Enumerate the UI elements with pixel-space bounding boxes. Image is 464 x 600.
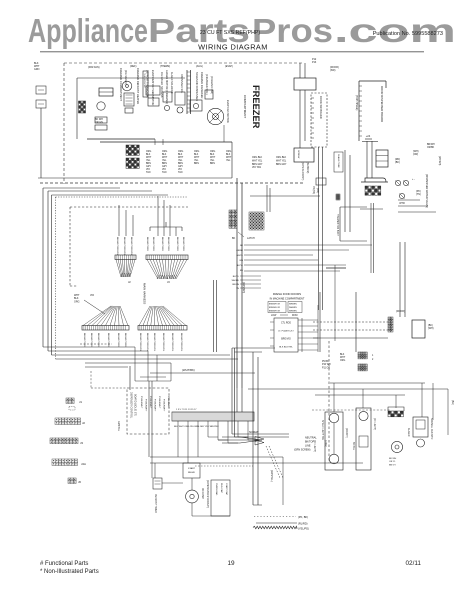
machine tiny labels right [412, 144, 440, 196]
fresh food right ladder [298, 305, 318, 352]
svg-text:BLK: BLK [178, 154, 183, 156]
wire trunk center stubs [250, 185, 320, 212]
svg-text:(FRZ FAN): (FRZ FAN) [88, 66, 100, 69]
svg-text:Appliance: Appliance [28, 12, 148, 49]
svg-text:YEL: YEL [210, 160, 215, 162]
defrost heater [124, 93, 134, 113]
svg-text:ORG: ORG [210, 151, 215, 153]
wire trunk right pair [319, 147, 323, 310]
ice maker tiny labels [95, 118, 103, 124]
svg-text:YEL: YEL [226, 160, 231, 162]
svg-text:VIO: VIO [162, 169, 166, 171]
svg-text:BLKWHTORGYEL: BLKWHTORGYEL [162, 333, 164, 352]
svg-text:BLKWHTORGYEL: BLKWHTORGYEL [139, 333, 141, 352]
svg-text:(GRN/YEL): (GRN/YEL) [270, 470, 272, 482]
svg-text:BLKWHTORGYEL: BLKWHTORGYEL [153, 333, 155, 352]
fan module box [413, 417, 428, 447]
svg-text:DISPENSER CONTROL: DISPENSER CONTROL [130, 392, 133, 419]
svg-text:VIO: VIO [146, 169, 150, 171]
wire dispenser link [300, 90, 305, 148]
svg-text:AUGER MOTOR (FREEZER): AUGER MOTOR (FREEZER) [165, 70, 169, 104]
svg-text:BLK: BLK [210, 154, 215, 156]
svg-text:ORG: ORG [74, 300, 80, 303]
wires compressor links [162, 478, 230, 516]
dispenser top box [294, 78, 316, 90]
svg-text:+24: +24 [366, 134, 371, 138]
svg-text:ORG BLK: ORG BLK [276, 157, 287, 159]
svg-text:J1: J1 [79, 400, 82, 404]
svg-text:BOARD (SOLID ST): BOARD (SOLID ST) [134, 394, 137, 416]
svg-text:+ -: + - [412, 178, 415, 181]
svg-text:J6: J6 [78, 480, 81, 484]
svg-text:BK WH: BK WH [389, 458, 397, 460]
auger module bracket [388, 407, 404, 411]
svg-text:BRN: BRN [146, 163, 151, 165]
svg-text:J2: J2 [82, 421, 85, 425]
svg-text:BLKWHTORG: BLKWHTORG [97, 333, 99, 347]
fill tube heater [95, 117, 107, 130]
trunk top box [316, 178, 326, 185]
FREEZER compartment label [243, 85, 261, 129]
freezer interior extra labels [124, 70, 213, 99]
svg-text:DEFROST THERMOSTAT: DEFROST THERMOSTAT [146, 70, 149, 99]
svg-text:P1 BLKWHT: P1 BLKWHT [149, 396, 151, 409]
svg-text:ORG: ORG [178, 151, 183, 153]
svg-text:WHT: WHT [226, 157, 232, 159]
svg-text:BLKWHTORGYEL: BLKWHTORGYEL [180, 333, 182, 352]
svg-text:(EVAP): (EVAP) [225, 65, 233, 68]
main board top tiny text [312, 58, 339, 72]
svg-text:EVAPORATOR THERMISTOR: EVAPORATOR THERMISTOR [151, 70, 155, 105]
svg-text:GRY: GRY [178, 166, 183, 168]
svg-text:BRN: BRN [162, 163, 167, 165]
wire bus lower horizontals [43, 347, 238, 367]
svg-text:SHELF LIGHT SW: SHELF LIGHT SW [321, 420, 324, 441]
svg-text:P1 BLKWHT: P1 BLKWHT [140, 396, 142, 409]
svg-text:WHT: WHT [210, 157, 216, 159]
svg-text:(DISPENSER WATER VALVE): (DISPENSER WATER VALVE) [425, 174, 428, 208]
machine compartment dashed boundary vertical [328, 341, 330, 463]
svg-text:WHT YEL: WHT YEL [252, 160, 263, 162]
svg-text:(AUG): (AUG) [196, 65, 203, 68]
dispenser rows labels [395, 150, 419, 164]
svg-text:BLK WHT ORG YEL BRN GRY VIO TA: BLK WHT ORG YEL BRN GRY VIO TAN PNK [174, 425, 219, 428]
svg-text:YEL: YEL [194, 160, 199, 162]
svg-text:(RD/WH): (RD/WH) [345, 428, 348, 438]
svg-text:(DEF): (DEF) [130, 65, 137, 68]
svg-text:(ICE MAKER): (ICE MAKER) [124, 70, 127, 85]
wire drops from control strip [178, 421, 258, 463]
left margin tiny labels [34, 62, 40, 71]
fresh food table 2 [288, 302, 302, 313]
svg-text:BLKWHTORG: BLKWHTORG [176, 237, 178, 251]
svg-text:LATCH: LATCH [247, 237, 255, 240]
svg-text:WTR: WTR [399, 202, 405, 205]
dispenser connector rows block [376, 150, 388, 167]
wire bottom trunk pair [214, 280, 263, 505]
svg-text:ORG BLK: ORG BLK [252, 157, 263, 159]
lamp bus lines [248, 383, 448, 395]
svg-text:GRN: GRN [34, 68, 40, 71]
svg-text:BLKWHTORG: BLKWHTORG [90, 333, 92, 347]
harness W4 label rows below [139, 333, 182, 352]
svg-text:YEL: YEL [162, 160, 167, 162]
wire bus left outer pair [43, 188, 152, 351]
right door aux box [412, 320, 425, 338]
svg-text:BRN GRY: BRN GRY [276, 164, 287, 166]
latch wire and labels [232, 232, 255, 240]
harness W1 wire label rows [116, 237, 132, 256]
svg-text:BK/YEL: BK/YEL [352, 442, 354, 451]
dashed boundary corner [91, 371, 127, 388]
fresh food control box [270, 318, 298, 352]
auger solenoid parts [190, 100, 202, 111]
svg-text:GR/YL: GR/YL [236, 255, 243, 257]
svg-text:P11 OR: P11 OR [322, 367, 330, 369]
svg-text:FRESH FOOD DOORS: FRESH FOOD DOORS [273, 292, 301, 296]
interface board bottom tick [365, 134, 372, 139]
freezer interior extra parts [155, 90, 213, 145]
svg-text:SCREW: SCREW [249, 431, 259, 434]
center connector grid left [229, 210, 232, 213]
svg-text:YEL: YEL [146, 160, 151, 162]
water valve coil symbols [395, 180, 408, 205]
header rule [40, 51, 424, 53]
wire right trunk pair x400 [400, 242, 405, 317]
svg-text:BR/WH: BR/WH [427, 144, 435, 146]
svg-text:TN: TN [236, 288, 239, 290]
svg-text:(TN): (TN) [416, 193, 421, 196]
svg-text:ORG: ORG [194, 151, 199, 153]
water valve coils connector [365, 186, 368, 189]
upper right connector grids [322, 352, 374, 371]
svg-text:ORG: ORG [226, 151, 231, 153]
dotted diagonals to compressor [266, 446, 283, 478]
dispenser control board dashed box [127, 388, 169, 434]
svg-text:(PK, BK): (PK, BK) [298, 515, 308, 519]
svg-text:BRN/WH OR: BRN/WH OR [269, 304, 281, 306]
wire bus inner single dashed [70, 207, 188, 286]
wire down to compressor [149, 381, 152, 457]
svg-text:VIO: VIO [90, 294, 94, 297]
water valve bracket [361, 178, 388, 182]
main harness label [128, 280, 170, 304]
svg-text:AUGER SOLENOID: AUGER SOLENOID [170, 72, 173, 94]
svg-text:(SENSOR): (SENSOR) [306, 162, 308, 173]
svg-text:WHT: WHT [340, 357, 346, 359]
harness fan W4 [139, 306, 150, 326]
lamp dashed feed [312, 409, 390, 411]
compressor motor [186, 490, 199, 503]
svg-text:IN MACHINE COMPARTMENT: IN MACHINE COMPARTMENT [270, 298, 305, 301]
svg-text:1 3 5 7 9 11 13 15: 1 3 5 7 9 11 13 15 17 [176, 409, 197, 411]
right door labels [396, 310, 434, 330]
interface T bar [362, 141, 378, 143]
svg-text:SCREW: SCREW [297, 150, 299, 159]
harness fan W3 [83, 306, 111, 326]
svg-text:WH/BRN: WH/BRN [289, 307, 297, 309]
svg-text:ORG: ORG [340, 360, 345, 362]
svg-text:BLKWHTORG: BLKWHTORG [152, 237, 154, 251]
svg-text:BLKWHTORG: BLKWHTORG [124, 333, 126, 347]
svg-text:AUGER: AUGER [407, 428, 410, 437]
svg-text:BLKWHTORG: BLKWHTORG [117, 333, 119, 347]
svg-text:WHT: WHT [146, 157, 152, 159]
harness W2 bundle hash [157, 275, 177, 279]
svg-text:START CAP: START CAP [225, 483, 228, 496]
center bus lower rows [232, 276, 261, 290]
left margin terminal 1 [36, 86, 46, 94]
svg-text:BLKWHTORGYEL: BLKWHTORGYEL [146, 333, 148, 352]
lamp stubs [334, 383, 448, 435]
defrost timer box [153, 478, 162, 489]
auger module labels [389, 428, 410, 466]
svg-text:BLKWHTORGYEL: BLKWHTORGYEL [130, 237, 132, 256]
svg-text:FREEZER: FREEZER [251, 85, 261, 129]
freezer section labels column [195, 72, 209, 101]
svg-text:TAN: TAN [146, 171, 151, 174]
svg-text:(CRUSHER SOL): (CRUSHER SOL) [205, 74, 209, 95]
harness fan W1 [116, 260, 121, 278]
overload box [211, 480, 230, 516]
svg-text:OR GN: OR GN [95, 121, 103, 124]
connector J4 [52, 459, 86, 466]
freezer top tiny labels [88, 65, 233, 69]
svg-text:GRY: GRY [162, 166, 167, 168]
freezer harness connector B [126, 158, 128, 160]
svg-text:BK: BK [232, 237, 236, 240]
svg-text:LT. PLASTIC/LT: LT. PLASTIC/LT [278, 330, 294, 333]
wires fresh food to right connector dashed [313, 322, 388, 338]
harness W2 top bracket [150, 222, 182, 231]
svg-text:BK/YL: BK/YL [237, 265, 244, 267]
wire left margin drop [40, 108, 42, 178]
svg-text:OVERLOAD: OVERLOAD [215, 483, 218, 496]
svg-text:P9 BK: P9 BK [322, 361, 329, 363]
center connector grid right [249, 212, 252, 215]
control board connector strip [172, 412, 254, 421]
svg-text:BLK: BLK [162, 154, 167, 156]
neutral splice wedge [240, 437, 264, 446]
wire right mid horizontals [398, 200, 436, 212]
svg-text:BRN/WH OR: BRN/WH OR [269, 310, 281, 312]
svg-text:(BK): (BK) [395, 161, 400, 164]
harness connector strip W3 [82, 326, 129, 331]
svg-text:J4A: J4A [81, 462, 86, 466]
svg-text:OR/BK: OR/BK [236, 250, 243, 252]
svg-text:(WH): (WH) [428, 327, 434, 330]
harness W1 bundle hash [121, 273, 131, 277]
svg-text:RUN CAP: RUN CAP [220, 483, 223, 493]
door switch board pins [311, 98, 314, 138]
svg-text:(DOOR): (DOOR) [396, 310, 405, 313]
neutral feed wires [218, 437, 240, 443]
svg-text:BLKWHTORG: BLKWHTORG [146, 237, 148, 251]
svg-text:RD: RD [240, 270, 244, 272]
center horizontal wire bus [244, 245, 372, 271]
auger module connector [388, 411, 391, 414]
svg-text:WH/BRN: WH/BRN [289, 310, 297, 312]
svg-text:GLASS TUBE: GLASS TUBE [337, 154, 340, 168]
svg-text:RELAY: RELAY [188, 471, 196, 474]
svg-text:(FF LIGHT): (FF LIGHT) [373, 418, 376, 430]
auger motor connector strip [187, 70, 191, 114]
svg-text:P1 BLKWHT: P1 BLKWHT [167, 396, 169, 409]
svg-text:DOOR DISPENSER BOARD: DOOR DISPENSER BOARD [380, 86, 384, 122]
svg-text:BLK: BLK [340, 354, 345, 356]
svg-text:DEFROST TIMER: DEFROST TIMER [154, 494, 156, 513]
mid labels vertical pair [301, 162, 308, 180]
trunk side labels [312, 186, 318, 194]
svg-text:BLK BLK/YEL: BLK BLK/YEL [279, 347, 293, 349]
svg-text:(TOP HINGE): (TOP HINGE) [355, 95, 358, 110]
svg-text:BLKWHTORG: BLKWHTORG [182, 237, 184, 251]
svg-text:BLKWHTORG: BLKWHTORG [107, 333, 109, 347]
svg-text:BLK: BLK [194, 154, 199, 156]
cabinet dashed boundary horizontal [40, 182, 305, 184]
svg-text:P13: P13 [312, 61, 317, 64]
dispenser lower component [294, 148, 314, 162]
svg-text:BRN GRY: BRN GRY [252, 164, 263, 166]
wires upper-right connectors [320, 292, 356, 352]
left small wire labels [74, 294, 105, 314]
neutral labels [294, 437, 317, 452]
watermark AppliancePartsPros.com [28, 12, 456, 49]
svg-text:WHT: WHT [194, 157, 200, 159]
connector J1 [66, 398, 82, 410]
wire water valve drop pair [360, 203, 383, 273]
svg-text:WH/RD: WH/RD [232, 280, 240, 282]
svg-text:(COMPRESSOR CIRCUIT): (COMPRESSOR CIRCUIT) [206, 480, 208, 508]
wire freezer exit right [224, 125, 232, 178]
trunk small grid [336, 194, 338, 196]
svg-text:BK/YL: BK/YL [233, 276, 240, 278]
svg-text:(FREEZER FAN): (FREEZER FAN) [210, 76, 213, 94]
svg-text:BLKWHTORG: BLKWHTORG [83, 333, 85, 347]
wire interface drops [367, 141, 372, 178]
wire bus left inner pair [52, 195, 189, 359]
svg-text:P1 BLKWHT: P1 BLKWHT [158, 396, 160, 409]
svg-text:(YEL/PD): (YEL/PD) [298, 527, 309, 531]
svg-text:(RD/WH): (RD/WH) [438, 156, 440, 166]
center bus labels [236, 245, 244, 272]
left margin terminal 2 [36, 100, 46, 108]
svg-text:VIO: VIO [178, 169, 182, 171]
ff light fixture [356, 408, 371, 470]
defrost thermostat [143, 71, 148, 97]
svg-text:P1 BLKWHT: P1 BLKWHT [145, 399, 147, 412]
auger motor box [175, 92, 185, 113]
svg-text:BLK: BLK [146, 154, 151, 156]
svg-text:OR/BK: OR/BK [427, 147, 435, 149]
svg-text:OR/GN: OR/GN [232, 284, 240, 286]
svg-text:RC/COMP: RC/COMP [201, 488, 203, 499]
freezer connector wire labels [146, 151, 287, 174]
svg-text:BLK: BLK [226, 154, 231, 156]
evaporator fan motor [207, 108, 223, 124]
svg-text:WIRING DIAGRAM: WIRING DIAGRAM [198, 43, 268, 52]
svg-text:BRN: BRN [178, 163, 183, 165]
connector J2 [55, 418, 85, 425]
svg-text:OR YL: OR YL [389, 461, 396, 463]
harness fan W2 [147, 260, 158, 280]
ice maker fan [122, 81, 132, 91]
svg-text:TAN: TAN [162, 171, 167, 174]
svg-text:(THERM): (THERM) [160, 65, 170, 68]
svg-text:ORG: ORG [146, 151, 151, 153]
auger motor circle [391, 441, 402, 452]
svg-text:BRN/WH OR: BRN/WH OR [269, 307, 281, 309]
wire mid verticals to control [130, 366, 242, 412]
dispenser interface board outline [359, 81, 386, 141]
ice maker connector [79, 101, 81, 103]
ice maker motor [97, 102, 105, 110]
svg-text:(GRN SCREW): (GRN SCREW) [294, 449, 311, 452]
svg-text:GRN/YEL: GRN/YEL [117, 421, 119, 432]
svg-text:P1 BLKWHT: P1 BLKWHT [154, 399, 156, 412]
dashed stub under W3 [80, 343, 112, 345]
svg-text:MAIN HARNESS: MAIN HARNESS [143, 283, 147, 304]
svg-text:Publication No. 5995588273: Publication No. 5995588273 [373, 31, 443, 37]
heater wire yel pd [253, 526, 309, 530]
svg-text:(LINE): (LINE) [324, 440, 327, 447]
svg-text:P4 (BK): P4 (BK) [312, 186, 314, 194]
svg-text:19: 19 [227, 560, 235, 567]
svg-text:ORG: ORG [162, 151, 167, 153]
svg-text:COMPARTMENT: COMPARTMENT [243, 95, 247, 118]
svg-text:(SW): (SW) [330, 69, 336, 72]
svg-text:BLKWHTORGYEL: BLKWHTORGYEL [116, 237, 118, 256]
svg-text:BRN: BRN [194, 163, 199, 165]
door switch board dashed box [311, 93, 327, 147]
svg-text:(RL/RD): (RL/RD) [298, 522, 308, 526]
svg-text:BK/TOP: BK/TOP [305, 441, 314, 444]
svg-text:23 CU FT SXS REF(PHP): 23 CU FT SXS REF(PHP) [200, 30, 260, 36]
right cabinet box [340, 207, 367, 241]
bus mesh verticals [135, 347, 171, 381]
svg-text:EVAP FAN MOTOR: EVAP FAN MOTOR [226, 100, 230, 123]
harness connector strip W1 [115, 255, 136, 260]
svg-text:# Functional Parts: # Functional Parts [40, 561, 88, 567]
svg-text:GRY: GRY [146, 166, 151, 168]
svg-text:WHT YEL: WHT YEL [276, 160, 287, 162]
freezer compartment dashed boundary [64, 63, 303, 184]
svg-text:(OR): (OR) [413, 153, 418, 156]
connector J3 [50, 438, 83, 445]
svg-text:P10 WH: P10 WH [322, 364, 331, 366]
svg-text:LOW: LOW [271, 315, 277, 317]
svg-text:BRN: BRN [210, 163, 215, 165]
svg-text:TAN: TAN [178, 171, 183, 174]
harness connector strip W2 [146, 255, 188, 260]
freezer harness connector A [126, 145, 128, 147]
svg-text:WH: WH [239, 260, 243, 262]
harness connector strip W4 [138, 326, 187, 331]
svg-text:FREEZER ICEMAKER: FREEZER ICEMAKER [200, 72, 204, 99]
svg-text:02/11: 02/11 [405, 560, 421, 567]
wire trunk pair to neutral [232, 348, 289, 437]
svg-text:(GRN/WH): (GRN/WH) [242, 282, 244, 293]
fresh food door title [270, 292, 305, 301]
svg-text:NEUTRAL: NEUTRAL [305, 437, 317, 440]
svg-text:THERMISTOR BRKT: THERMISTOR BRKT [336, 214, 338, 237]
wire trunk x345 [345, 150, 350, 232]
svg-text:CTL ROD: CTL ROD [281, 323, 291, 325]
right door connector grid [388, 317, 391, 320]
svg-text:BRO/VIO: BRO/VIO [281, 339, 291, 341]
harness W2 wire label rows [146, 237, 184, 251]
svg-text:WHT: WHT [162, 157, 168, 159]
